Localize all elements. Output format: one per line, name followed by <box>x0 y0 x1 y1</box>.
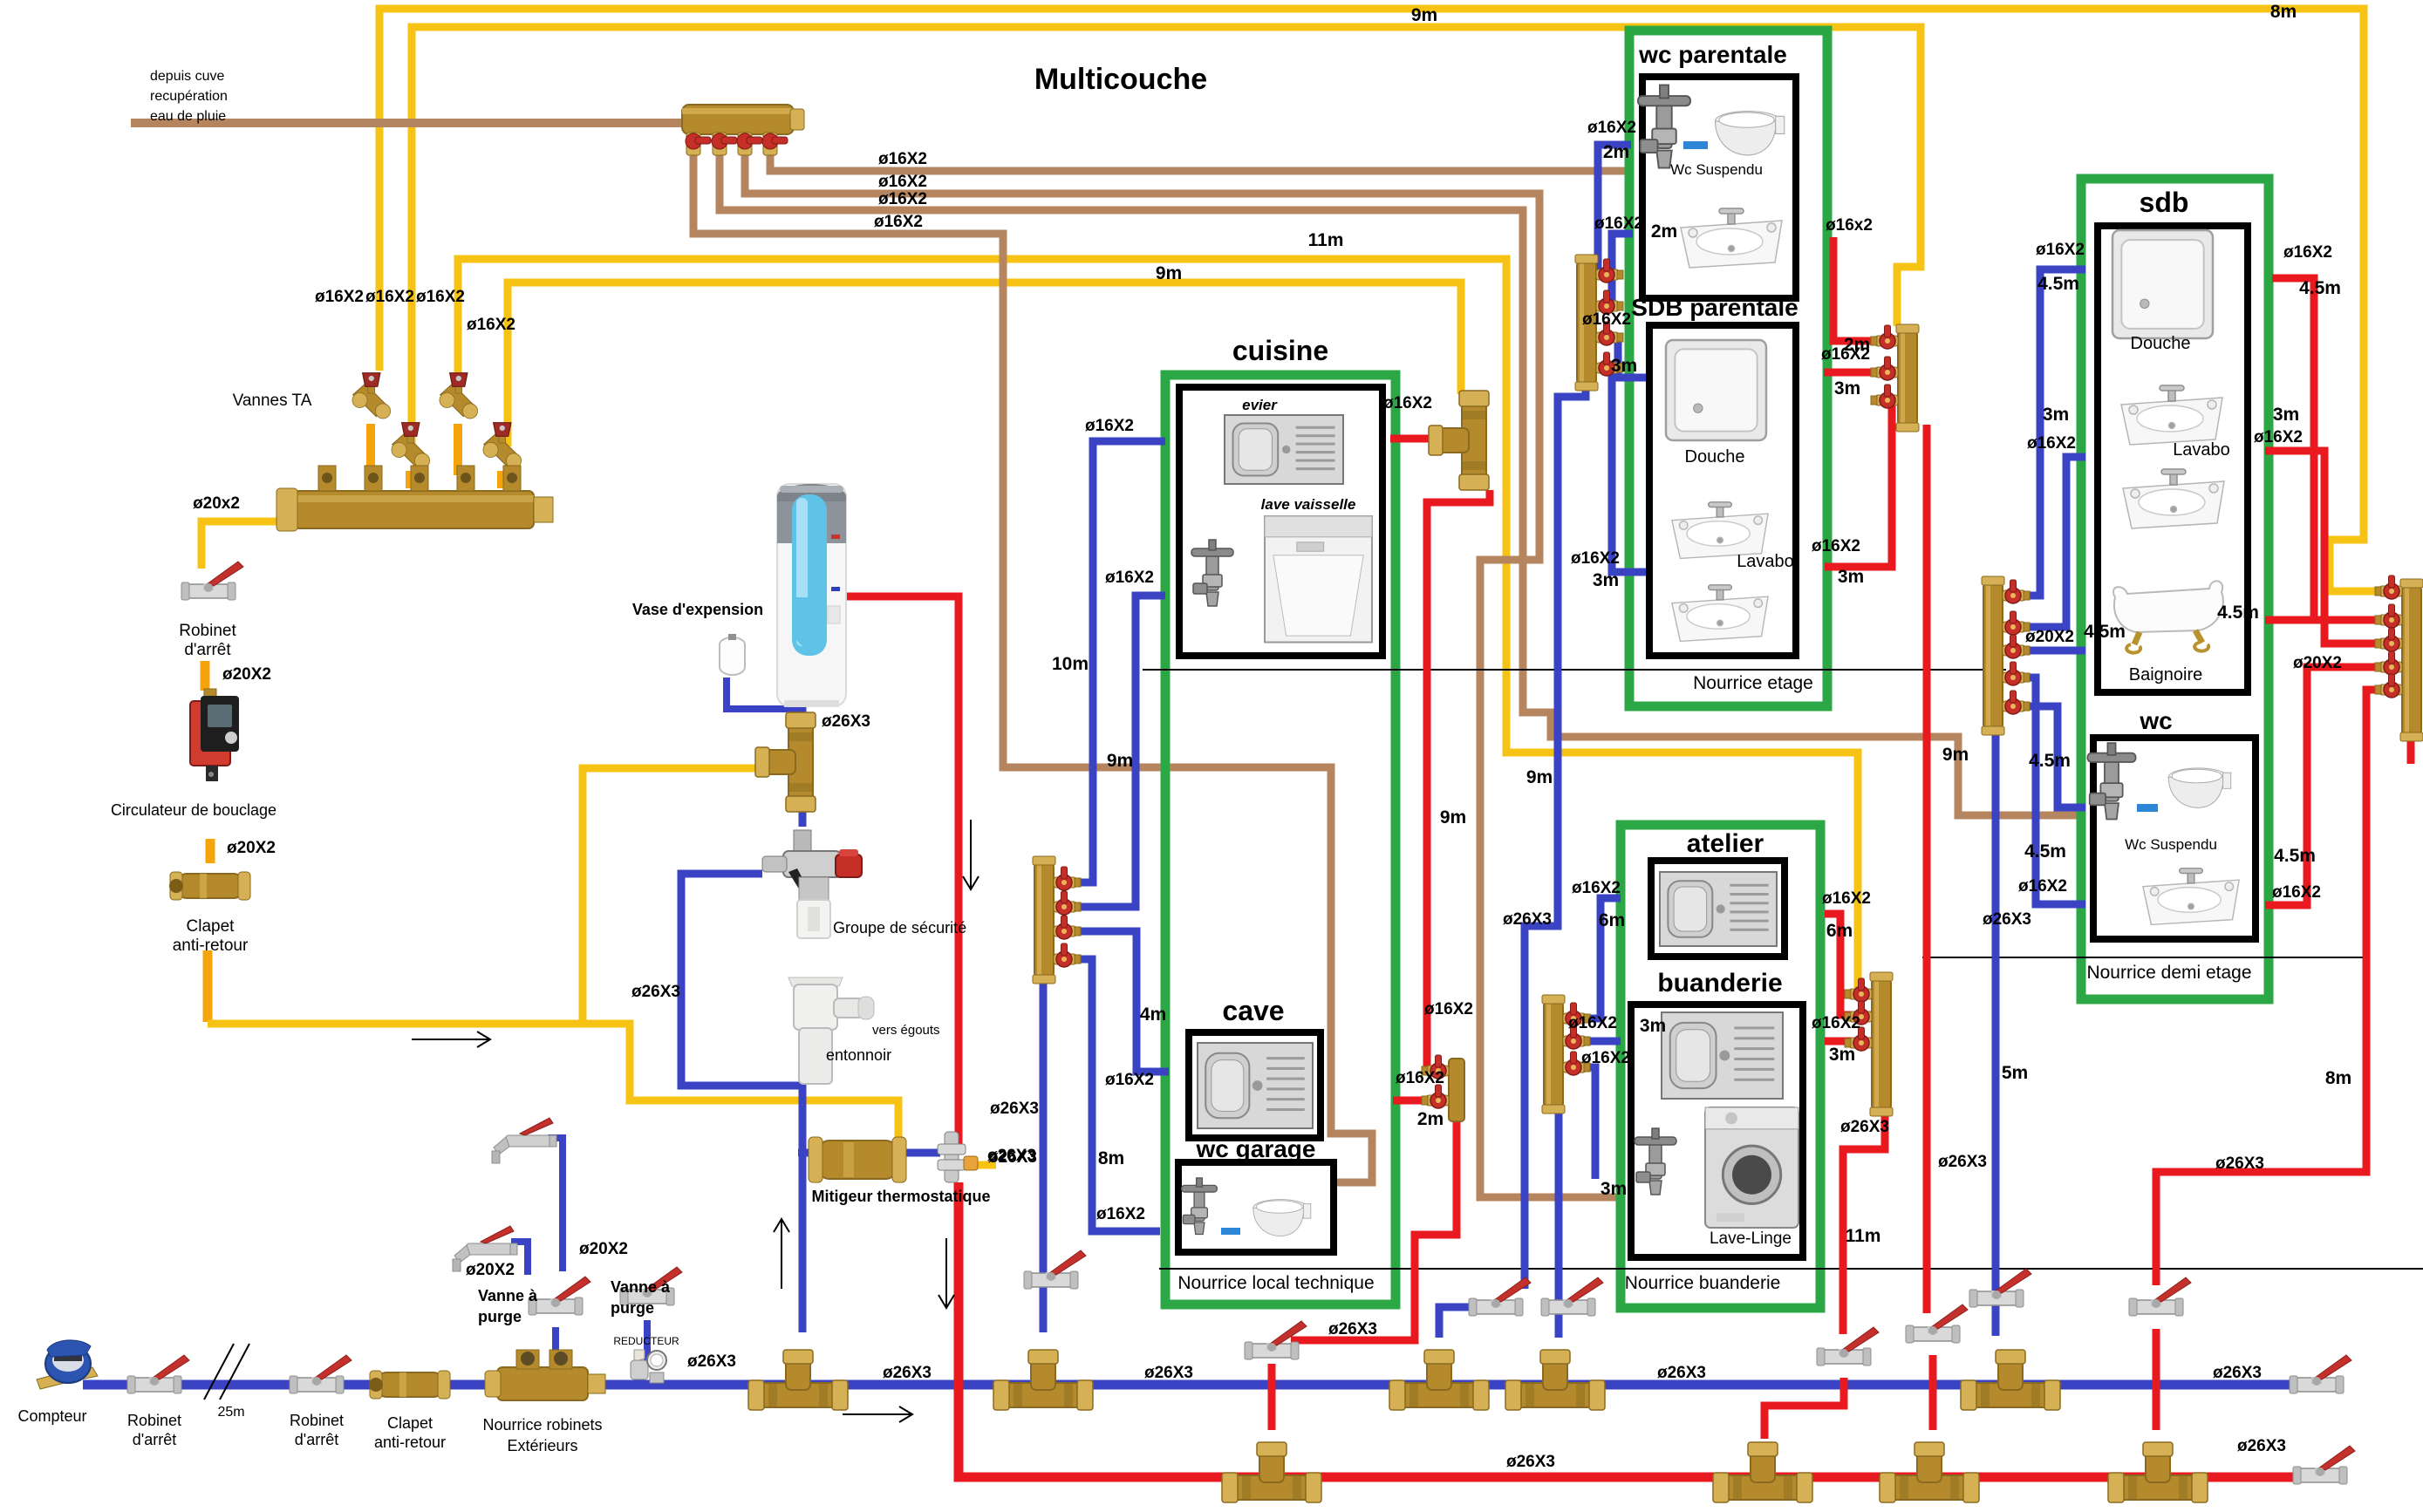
svg-text:ø26X3: ø26X3 <box>1503 910 1552 929</box>
svg-text:ø20X2: ø20X2 <box>222 665 271 684</box>
vanne rouge 11m <box>1817 1327 1879 1366</box>
svg-text:Nourrice robinets: Nourrice robinets <box>482 1416 602 1434</box>
stub ø20X2 sous clapet <box>203 950 213 1022</box>
svg-text:2m: 2m <box>1651 221 1677 242</box>
svg-text:ø16X2: ø16X2 <box>1587 119 1636 137</box>
rouge ø26X3 11m descente <box>1843 1109 1885 1334</box>
svg-text:3m: 3m <box>1829 1045 1855 1065</box>
vanne manifold <box>2375 576 2402 599</box>
svg-text:evier: evier <box>1242 397 1278 413</box>
T laiton bus chaud <box>1222 1442 1321 1502</box>
svg-text:ø16X2: ø16X2 <box>467 316 515 334</box>
robinet wc garage <box>1182 1178 1218 1235</box>
svg-text:sdb: sdb <box>2140 187 2189 218</box>
vanne manifold <box>1871 357 1898 380</box>
bleu ø16X2 lavabo sdb <box>2003 457 2085 627</box>
ligne nourrice demi etage <box>1922 957 2365 958</box>
lavabo 2 sdb <box>2123 469 2224 528</box>
svg-text:Clapet: Clapet <box>187 917 235 936</box>
bus principal eau froide ø26X3 <box>83 1380 2317 1390</box>
svg-text:ø20X2: ø20X2 <box>2293 654 2342 672</box>
rouge ø16X2 4.5m baignoire <box>2272 278 2402 620</box>
lavabo wc parentale <box>1681 208 1782 268</box>
svg-text:Nourrice demi etage: Nourrice demi etage <box>2086 963 2251 983</box>
tuyau jaune YA (11m) vers nourrice buanderie <box>458 259 1858 988</box>
svg-text:atelier: atelier <box>1687 829 1764 858</box>
svg-text:3m: 3m <box>2273 405 2299 425</box>
svg-text:5m: 5m <box>2002 1063 2028 1083</box>
nourrice buanderie chaud M5 <box>1872 979 1891 1109</box>
bleu mitigeur vers reducteur <box>898 1149 940 1157</box>
svg-text:ø16X2: ø16X2 <box>1096 1205 1145 1223</box>
svg-text:ø26X3: ø26X3 <box>988 1148 1037 1167</box>
svg-text:Wc Suspendu: Wc Suspendu <box>1670 161 1763 178</box>
bleu raccord vanne vers T bus <box>1439 1307 1493 1338</box>
svg-text:ø16X2: ø16X2 <box>1581 1049 1630 1067</box>
svg-text:ø26X3: ø26X3 <box>2215 1154 2264 1173</box>
cadre noir buanderie <box>1631 1005 1803 1257</box>
groupe de securite <box>762 830 862 938</box>
fleche descendante <box>938 1238 954 1308</box>
svg-text:9m: 9m <box>1526 767 1553 787</box>
rouge sortie chauffe-eau ø26X3 <box>840 596 959 1148</box>
svg-text:Nourrice local technique: Nourrice local technique <box>1177 1273 1374 1293</box>
svg-text:ø16X2: ø16X2 <box>1396 1069 1444 1087</box>
rouge 9m vers nourrice cave <box>1427 490 1490 1071</box>
vanne manifold <box>2003 611 2030 635</box>
rouge ø16X2 3m douche parentale <box>1824 369 1898 377</box>
vanne manifold <box>2375 628 2402 651</box>
svg-text:Baignoire: Baignoire <box>2129 665 2203 684</box>
vanne manifold <box>1845 1001 1872 1025</box>
svg-text:ø16X2: ø16X2 <box>874 213 923 231</box>
wc garage cuvette <box>1253 1200 1311 1236</box>
fleche descendante rouge <box>963 820 979 889</box>
svg-text:anti-retour: anti-retour <box>374 1434 446 1451</box>
bleu ø16X2 4.5m douche sdb <box>2003 269 2085 596</box>
bus principal eau chaude ø26X3 <box>959 1182 2320 1477</box>
bleu ø26X3 descente nourrice etage <box>1525 384 1586 1289</box>
stub bleu vanne purge 2 <box>644 1320 651 1360</box>
vanne manifold <box>1845 1027 1872 1051</box>
robinet wc parentale <box>1638 85 1690 168</box>
vanne manifold <box>2375 674 2402 698</box>
tuyau jaune YB (9m) vers T cuisine <box>508 283 1461 446</box>
svg-text:ø26X3: ø26X3 <box>2213 1364 2262 1382</box>
bleu vers mitigeur <box>798 1149 817 1157</box>
svg-text:Nourrice etage: Nourrice etage <box>1693 673 1813 693</box>
svg-text:eau de pluie: eau de pluie <box>150 109 226 124</box>
svg-text:d'arrêt: d'arrêt <box>295 1431 338 1448</box>
svg-text:ø16X2: ø16X2 <box>2018 877 2067 896</box>
vanne manifold <box>1422 1055 1449 1079</box>
svg-text:ø16X2: ø16X2 <box>416 288 465 306</box>
svg-text:4.5m: 4.5m <box>2029 751 2071 771</box>
svg-text:3m: 3m <box>1838 567 1864 587</box>
svg-text:Robinet: Robinet <box>127 1412 181 1429</box>
rouge 8m descente vers bus <box>2156 690 2402 1285</box>
cadre noir wc sdb <box>2093 738 2256 939</box>
cadre noir cuisine <box>1179 387 1382 656</box>
vanne manifold <box>2375 651 2402 675</box>
mitigeur thermostatique <box>809 1137 906 1182</box>
svg-text:3m: 3m <box>1593 570 1619 590</box>
liaison robinet-wc garage <box>1221 1228 1240 1235</box>
svg-text:Lave-Linge: Lave-Linge <box>1710 1229 1792 1248</box>
lave-linge <box>1705 1107 1798 1228</box>
vase d'expansion <box>720 634 745 675</box>
nourrice buanderie froid M4 <box>1544 1002 1563 1107</box>
svg-text:ø26X3: ø26X3 <box>1506 1453 1555 1471</box>
svg-text:25m: 25m <box>217 1405 244 1420</box>
douche sdb <box>2112 230 2213 338</box>
cadre noir atelier <box>1651 861 1785 957</box>
T laiton bus froid <box>1961 1350 2060 1410</box>
tuyau jaune ø26X3 vers mitigeur <box>583 1024 898 1156</box>
svg-text:ø16X2: ø16X2 <box>1105 569 1154 587</box>
fleche droite bus <box>843 1406 912 1422</box>
chauffe-eau thermodynamique <box>777 484 846 707</box>
nourrice locale technique M3 <box>1034 863 1054 977</box>
cadre vert atelier / buanderie <box>1621 825 1820 1308</box>
svg-text:ø26X3: ø26X3 <box>1840 1118 1889 1136</box>
vanne manifold <box>1871 385 1898 408</box>
nourrice superieure eau de pluie <box>682 105 794 134</box>
bleu ø16X2 3m lave-linge <box>1572 1067 1595 1179</box>
vanne manifold <box>1054 891 1081 915</box>
svg-text:9m: 9m <box>1440 807 1466 828</box>
vanne manifold <box>2003 662 2030 685</box>
svg-text:ø16X2: ø16X2 <box>1582 310 1631 329</box>
rouge ø16X2 3m lavabo parentale <box>1825 400 1898 567</box>
svg-text:Robinet: Robinet <box>290 1412 344 1429</box>
svg-text:Multicouche: Multicouche <box>1034 63 1207 96</box>
vanne TA 2 <box>440 373 478 419</box>
svg-text:Mitigeur thermostatique: Mitigeur thermostatique <box>811 1188 990 1205</box>
svg-text:ø16X2: ø16X2 <box>878 150 927 168</box>
svg-text:3m: 3m <box>1834 378 1860 398</box>
ball valve <box>529 1277 590 1315</box>
vanne manifold <box>1563 1025 1590 1049</box>
svg-text:Douche: Douche <box>2131 334 2191 353</box>
svg-text:Lavabo: Lavabo <box>1737 552 1794 571</box>
svg-text:ø16x2: ø16x2 <box>1826 216 1873 235</box>
svg-text:6m: 6m <box>1599 910 1625 930</box>
svg-text:wc parentale: wc parentale <box>1638 41 1787 68</box>
svg-text:4.5m: 4.5m <box>2299 278 2341 298</box>
rouge ø16X2 6m evier atelier <box>1825 914 1872 1015</box>
svg-text:ø16X2: ø16X2 <box>2283 243 2332 262</box>
svg-text:ø16X2: ø16X2 <box>315 288 364 306</box>
svg-text:9m: 9m <box>1942 745 1969 765</box>
vanne extremite bus froid <box>2290 1355 2351 1393</box>
svg-text:ø26X3: ø26X3 <box>631 983 680 1001</box>
svg-text:2m: 2m <box>1603 142 1629 162</box>
svg-text:4.5m: 4.5m <box>2037 274 2079 294</box>
ball valve <box>620 1267 682 1305</box>
svg-text:9m: 9m <box>1107 751 1133 771</box>
vanne TA 3 <box>392 423 430 468</box>
tuyau brun depuis cuve recuperation <box>131 119 689 127</box>
compteur d'eau <box>37 1340 98 1389</box>
stub orange vanne TA <box>497 471 506 488</box>
clapet anti-retour gauche <box>169 872 250 900</box>
vanne manifold <box>1563 1052 1590 1075</box>
svg-text:Compteur: Compteur <box>17 1407 86 1425</box>
clapet anti-retour bus <box>369 1371 450 1399</box>
svg-text:ø16X2: ø16X2 <box>1812 1014 1860 1032</box>
T laiton bus froid <box>1505 1350 1605 1410</box>
vanne a purge robinet 2 <box>492 1118 556 1163</box>
vanne manifold <box>1054 867 1081 890</box>
cadre noir sdb <box>2098 226 2248 692</box>
vanne riser etage <box>1469 1277 1531 1316</box>
svg-text:ø16X2: ø16X2 <box>1822 889 1871 908</box>
svg-text:Extérieurs: Extérieurs <box>507 1437 577 1454</box>
lavabo 1 sdb <box>2121 385 2222 445</box>
svg-text:4.5m: 4.5m <box>2217 603 2259 623</box>
bleu vase expansion <box>727 678 802 709</box>
vanne manifold <box>1871 325 1898 349</box>
svg-text:cave: cave <box>1222 995 1284 1026</box>
tuyau jaune Y2 (9m) vers nourrice SDB parentale <box>412 27 1921 446</box>
svg-text:9m: 9m <box>1411 5 1437 25</box>
svg-text:Vanne à: Vanne à <box>478 1287 538 1304</box>
svg-text:ø16X2: ø16X2 <box>365 288 414 306</box>
fleche droite jaune <box>412 1032 490 1047</box>
svg-text:ø16X2: ø16X2 <box>2027 434 2076 453</box>
svg-text:3m: 3m <box>2043 405 2069 425</box>
bleu ø16X2 2m wc suspendu parentale <box>1596 145 1631 275</box>
svg-text:2m: 2m <box>1417 1109 1444 1129</box>
circulateur de bouclage <box>190 689 239 781</box>
T laiton bus froid <box>748 1350 848 1410</box>
svg-text:Vanne à: Vanne à <box>611 1278 671 1296</box>
cadre vert cuisine/cave/wc garage <box>1165 375 1396 1304</box>
vanne manifold <box>2375 604 2402 628</box>
vanne extremite bus chaud <box>2293 1446 2355 1484</box>
bleu ø16X2 6m evier atelier <box>1572 898 1621 1018</box>
wc suspendu parentale <box>1716 112 1785 155</box>
robinet d'arret 2 <box>290 1355 352 1393</box>
svg-text:ø20x2: ø20x2 <box>193 494 240 513</box>
svg-text:11m: 11m <box>1308 230 1344 250</box>
svg-text:3m: 3m <box>1640 1016 1666 1036</box>
nourrice etage (froid) M1 <box>1577 262 1596 384</box>
svg-text:ø26X3: ø26X3 <box>2237 1437 2286 1455</box>
stub orange vanne TA <box>454 424 462 475</box>
lavabo wc sdb <box>2143 868 2239 925</box>
slashes 25m <box>204 1344 249 1400</box>
svg-text:4.5m: 4.5m <box>2024 841 2066 862</box>
bleu descente nourrice buanderie vers bus <box>1555 1107 1563 1338</box>
stub rouge vanne 8m vers T <box>2153 1329 2160 1430</box>
T laiton cuisine <box>1429 391 1489 490</box>
svg-text:ø26X3: ø26X3 <box>687 1352 736 1371</box>
bleu ø16X2 4m evier cave <box>1071 931 1169 1072</box>
douche SDB parentale <box>1666 340 1766 440</box>
lave vaisselle <box>1265 516 1372 643</box>
bleu ø16X2 4.5m lavabo wc <box>2003 678 2085 904</box>
bleu ø16X2 3m lavabo SDB parentale <box>1596 368 1649 572</box>
svg-text:ø16X2: ø16X2 <box>1424 1000 1473 1018</box>
vanne riser buanderie <box>1541 1277 1603 1316</box>
bleu ø16X2 10m evier cuisine <box>1071 441 1165 882</box>
vanne nourrice pluie <box>762 133 788 155</box>
svg-text:Vase d'expension: Vase d'expension <box>632 601 763 618</box>
svg-text:SDB parentale: SDB parentale <box>1631 294 1798 321</box>
bleu ø20X2 vanne a purge 2 <box>548 1138 563 1271</box>
svg-text:Groupe de sécurité: Groupe de sécurité <box>833 919 966 936</box>
wc suspendu sdb <box>2168 768 2231 808</box>
vanne riser nourrice locale <box>1024 1250 1086 1289</box>
svg-text:ø26X3: ø26X3 <box>1983 910 2031 929</box>
svg-text:2m: 2m <box>1844 335 1870 355</box>
stub jaune sortie mitigeur <box>977 1161 996 1169</box>
svg-text:ø16X2: ø16X2 <box>878 190 927 208</box>
svg-text:8m: 8m <box>2325 1068 2351 1088</box>
svg-text:d'arrêt: d'arrêt <box>133 1431 176 1448</box>
bleu ø16X2 4.5m wc suspendu <box>2003 706 2085 807</box>
svg-text:buanderie: buanderie <box>1657 969 1782 998</box>
T laiton bus chaud <box>1880 1442 1979 1502</box>
cadre vert wc parentale / SDB parentale <box>1629 31 1827 706</box>
svg-text:ø16X2: ø16X2 <box>2272 883 2321 902</box>
stub rouge vanne 9m vers T <box>1929 1355 1937 1430</box>
svg-text:lave vaisselle: lave vaisselle <box>1261 496 1356 513</box>
svg-text:ø26X3: ø26X3 <box>990 1100 1039 1118</box>
svg-text:ø20X2: ø20X2 <box>579 1240 628 1258</box>
fleche montante <box>774 1219 789 1289</box>
robinet d'arret 1 <box>127 1355 189 1393</box>
svg-text:entonnoir: entonnoir <box>826 1046 891 1064</box>
svg-text:ø16X2: ø16X2 <box>1383 394 1432 412</box>
rouge descente vers vanne bus chaud <box>1291 1120 1457 1340</box>
vanne rouge 9m <box>1906 1304 1968 1343</box>
svg-text:ø16X2: ø16X2 <box>878 173 927 191</box>
vanne manifold <box>1596 322 1623 345</box>
cadre vert sdb / wc <box>2081 179 2269 999</box>
svg-text:wc garage: wc garage <box>1196 1135 1316 1162</box>
svg-text:ø16X2: ø16X2 <box>1812 537 1860 555</box>
evier cuisine <box>1225 415 1343 484</box>
svg-text:ø20X2: ø20X2 <box>2025 628 2074 646</box>
bleu ø16X2 3m evier buanderie <box>1572 1038 1621 1045</box>
evier cave <box>1198 1043 1313 1128</box>
svg-text:ø16X2: ø16X2 <box>1085 417 1134 435</box>
tuyau jaune ø20X2 vers T chauffe-eau <box>208 768 761 1024</box>
svg-text:cuisine: cuisine <box>1232 335 1328 366</box>
bleu 5m descente nourrice demi etage <box>1992 728 2000 1336</box>
reducteur de pression <box>631 1350 666 1383</box>
bleu ø16X2 3m douche SDB parentale <box>1596 337 1649 378</box>
vanne manifold <box>1596 290 1623 314</box>
liaison robinet-wc sdb <box>2137 804 2158 812</box>
rouge 9m descente vers bus <box>1923 425 1931 1313</box>
vanne a purge robinet 1 <box>453 1226 517 1271</box>
bleu ø16X2 8m wc garage <box>1071 959 1160 1231</box>
svg-text:purge: purge <box>478 1308 522 1325</box>
svg-text:ø20X2: ø20X2 <box>227 839 276 857</box>
stub rouge vanne 11m vers T <box>1764 1378 1844 1439</box>
nourrice etage (chaud) M2 <box>1898 331 1917 425</box>
vanne manifold <box>1054 916 1081 939</box>
svg-text:ø16X2: ø16X2 <box>1594 215 1643 233</box>
svg-text:3m: 3m <box>1611 356 1637 376</box>
svg-text:REDUCTEUR: REDUCTEUR <box>613 1335 679 1347</box>
svg-text:ø26X3: ø26X3 <box>1144 1364 1193 1382</box>
vanne manifold <box>1563 1003 1590 1026</box>
cadre noir wc garage <box>1178 1162 1334 1252</box>
vanne rouge 8m <box>2129 1277 2191 1316</box>
ligne nourrice etage <box>1143 669 2006 671</box>
svg-text:ø16X2: ø16X2 <box>1105 1071 1154 1089</box>
rouge ø16X2 3m evier buanderie <box>1825 1038 1872 1045</box>
nourrice demi etage chaud M7 <box>2402 586 2421 734</box>
svg-text:3m: 3m <box>1601 1179 1627 1199</box>
vanne manifold <box>2003 635 2030 658</box>
svg-text:ø16X2: ø16X2 <box>1568 1014 1617 1032</box>
mini nourrice cave <box>1449 1059 1464 1121</box>
bleu chauffe-eau vers T <box>799 706 807 721</box>
stub bleu vanne purge 1 <box>552 1327 559 1360</box>
nourrice ø20x2 laiton <box>294 491 534 528</box>
svg-text:Douche: Douche <box>1685 447 1745 467</box>
svg-text:Vannes TA: Vannes TA <box>233 392 312 410</box>
svg-text:4.5m: 4.5m <box>2274 846 2316 866</box>
svg-text:recupération: recupération <box>150 89 228 104</box>
svg-text:4m: 4m <box>1140 1005 1166 1025</box>
vanne manifold <box>2003 691 2030 714</box>
T laiton bus froid <box>1389 1350 1489 1410</box>
svg-text:Robinet: Robinet <box>179 622 236 640</box>
stub bas nourrice demi etage chaud <box>2407 737 2415 764</box>
cadre noir SDB parentale <box>1649 325 1796 656</box>
vanne rouge cave <box>1245 1321 1307 1359</box>
T laiton chauffe-eau <box>755 712 816 812</box>
stub ø20X2 sous circulateur <box>206 839 215 863</box>
bleu vanne a purge 1 <box>511 1242 528 1275</box>
robinet d'arret gauche <box>181 562 243 600</box>
lavabo 2 SDB parentale <box>1672 585 1768 642</box>
baignoire <box>2113 581 2223 652</box>
svg-text:11m: 11m <box>1846 1226 1881 1246</box>
svg-text:ø16X2: ø16X2 <box>1571 549 1620 568</box>
bleu descente nourrice locale vers bus <box>1040 977 1048 1332</box>
svg-text:ø26X3: ø26X3 <box>1328 1320 1377 1338</box>
svg-text:10m: 10m <box>1052 654 1089 674</box>
svg-text:8m: 8m <box>1098 1148 1124 1168</box>
svg-text:ø26X3: ø26X3 <box>1938 1153 1987 1171</box>
robinet wc sdb <box>2087 743 2135 819</box>
T laiton bus chaud <box>2108 1442 2208 1502</box>
tuyau jaune eau de pluie Y1 (8m) <box>379 9 2402 591</box>
svg-text:ø16X2: ø16X2 <box>2036 241 2085 259</box>
nourrice demi etage froid M6 <box>1983 583 2003 728</box>
branche baignoire <box>2265 616 2314 624</box>
vanne manifold <box>1845 978 1872 1002</box>
T laiton bus chaud <box>1713 1442 1812 1502</box>
bleu T vers groupe de securite <box>799 785 807 827</box>
svg-text:depuis cuve: depuis cuve <box>150 69 224 84</box>
tuyau brun ø16X2 vers wc parentale <box>770 155 1627 171</box>
svg-text:6m: 6m <box>1826 921 1853 941</box>
svg-text:ø26X3: ø26X3 <box>822 712 870 731</box>
stub ø20X2 sous robinet <box>201 661 210 691</box>
svg-text:ø16X2: ø16X2 <box>2254 428 2303 446</box>
ligne nourrice locale <box>1159 1268 2423 1270</box>
vanne manifold <box>1596 259 1623 283</box>
